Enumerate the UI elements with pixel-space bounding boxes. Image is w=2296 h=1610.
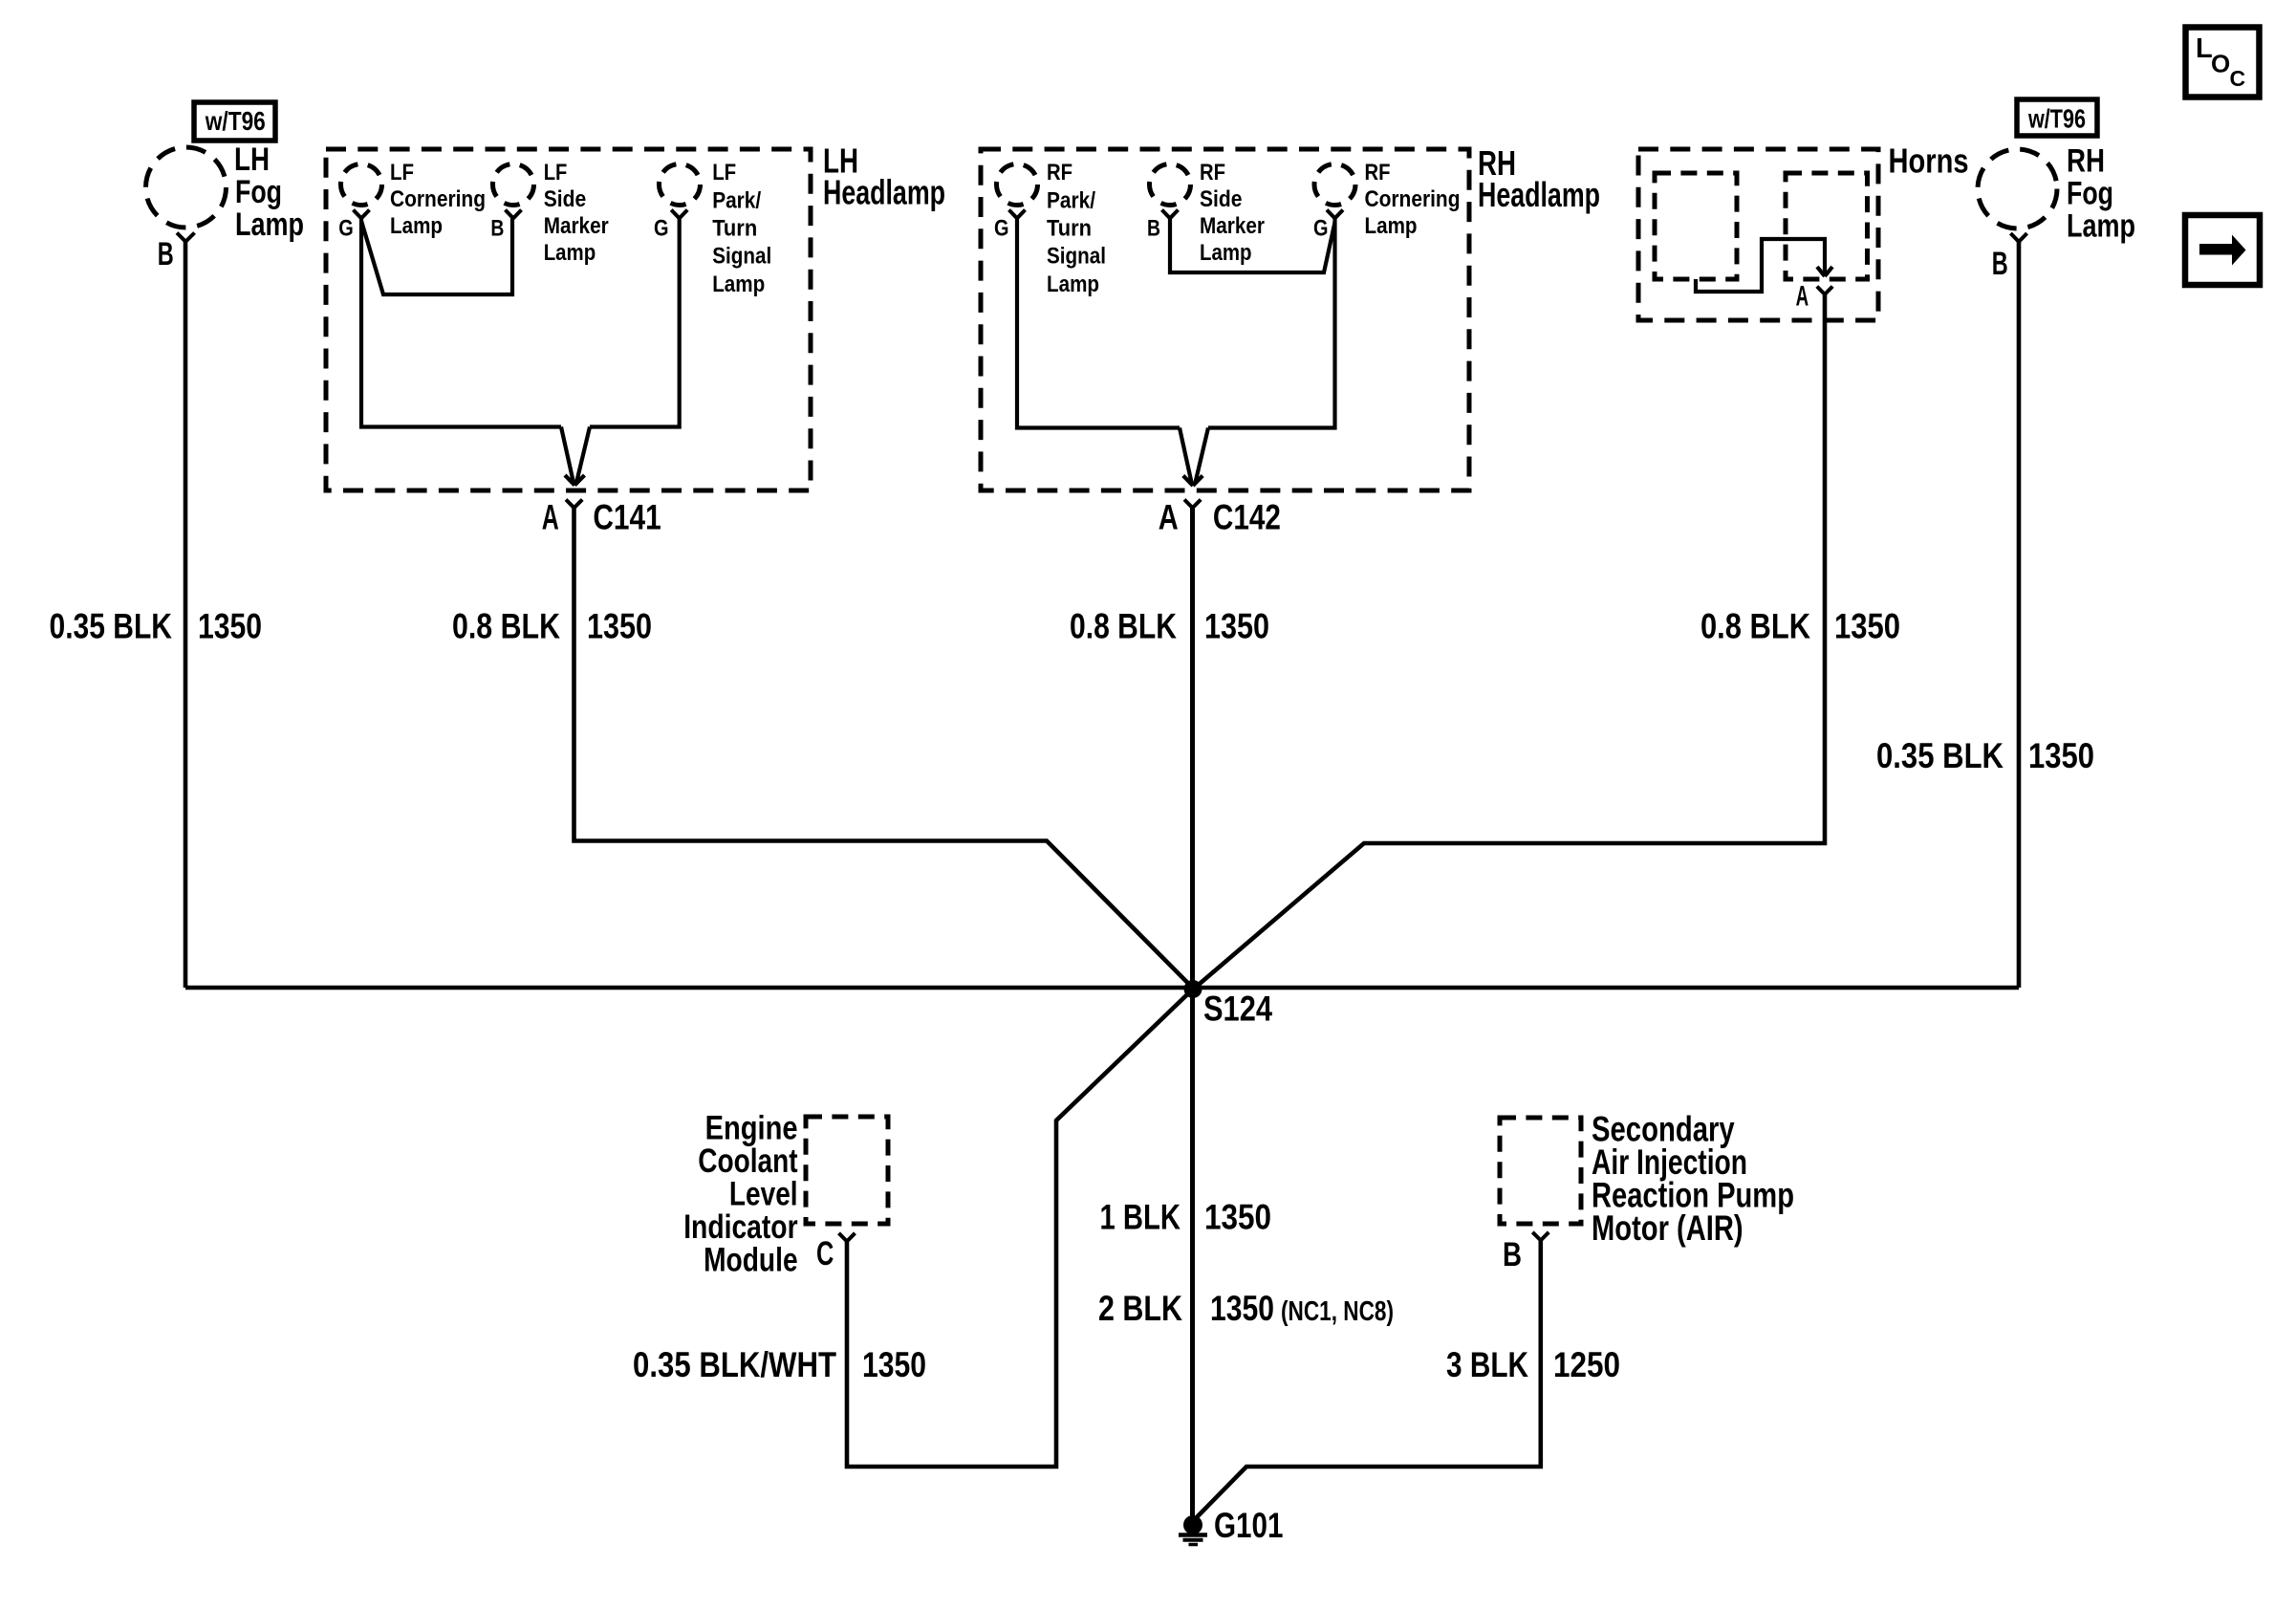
svg-text:C141: C141 (593, 498, 661, 537)
svg-text:Horns: Horns (1889, 141, 1969, 181)
svg-text:Marker: Marker (1200, 213, 1265, 239)
AIR pump pin B (1532, 1232, 1549, 1241)
svg-text:Fog: Fog (235, 174, 282, 210)
svg-text:RF: RF (1365, 160, 1391, 185)
RH Headlamp title (1478, 143, 1600, 214)
svg-text:A: A (542, 498, 559, 537)
svg-text:G: G (338, 216, 354, 242)
AIR pump label (1592, 1110, 1794, 1249)
svg-text:RH: RH (2067, 142, 2105, 179)
svg-text:1 BLK: 1 BLK (1100, 1197, 1181, 1236)
pin G of RF cornering lamp (1327, 210, 1343, 219)
LOC legend box (2186, 28, 2260, 98)
RH fog lamp (dashed circle) (1978, 149, 2057, 228)
w/T96 box (right) (2017, 99, 2097, 136)
LF side marker lamp (dashed circle) (493, 164, 534, 206)
svg-text:Turn: Turn (712, 216, 757, 242)
svg-text:LF: LF (390, 160, 414, 185)
svg-text:O: O (2211, 50, 2230, 78)
svg-text:Headlamp: Headlamp (823, 172, 945, 211)
w/T96 box (left) (194, 102, 275, 141)
svg-text:1350: 1350 (862, 1345, 926, 1384)
pin B of LF side marker lamp (506, 210, 522, 219)
svg-text:Indicator: Indicator (683, 1208, 798, 1246)
svg-text:Cornering: Cornering (1365, 186, 1461, 212)
svg-text:B: B (1147, 216, 1160, 242)
svg-text:Headlamp: Headlamp (1478, 175, 1600, 214)
svg-text:0.35 BLK/WHT: 0.35 BLK/WHT (633, 1345, 836, 1384)
svg-text:1350: 1350 (1210, 1289, 1274, 1328)
wire: RF side marker to cornering tie (1170, 219, 1335, 273)
svg-text:G: G (1313, 216, 1329, 242)
LH fog lamp label (234, 141, 304, 243)
LF cornering lamp (dashed circle) (341, 164, 382, 206)
svg-text:1350: 1350 (587, 607, 652, 646)
splice S124 (1184, 980, 1202, 998)
svg-text:B: B (490, 216, 504, 242)
wire: AIR pump to G101, 3 BLK 1250 (1195, 1240, 1541, 1519)
svg-text:Marker: Marker (544, 213, 609, 239)
wire: RF cornering lamp down (1208, 219, 1335, 428)
svg-text:w/T96: w/T96 (2027, 103, 2086, 133)
secondary air injection reaction pump motor (dashed box) (1500, 1118, 1581, 1224)
RH headlamp assembly (dashed box) (981, 149, 1469, 490)
svg-text:C: C (816, 1235, 834, 1273)
svg-text:G: G (654, 216, 669, 242)
svg-text:G: G (994, 216, 1009, 242)
engine coolant level indicator module (dashed box) (806, 1117, 888, 1224)
svg-text:Turn: Turn (1047, 216, 1092, 242)
svg-text:Lamp: Lamp (1047, 272, 1099, 297)
wire: module to S124, 0.35 BLK/WHT 1350 (847, 990, 1193, 1468)
LH headlamp assembly (dashed box) (326, 149, 811, 490)
wire: C142 / main ground vertical to G101 (1190, 508, 1195, 1517)
wire: C141 to S124, 0.8 BLK 1350 (574, 508, 1194, 989)
LH fog lamp (dashed circle) (146, 147, 227, 228)
svg-text:Park/: Park/ (712, 187, 761, 213)
svg-text:RF: RF (1047, 160, 1072, 185)
pin G of LF park/turn lamp (671, 210, 687, 219)
svg-text:S124: S124 (1203, 990, 1272, 1029)
svg-text:B: B (1503, 1236, 1522, 1273)
RF side marker lamp (dashed circle) (1150, 164, 1191, 206)
svg-text:1350: 1350 (2028, 736, 2094, 775)
svg-text:Lamp: Lamp (1365, 213, 1418, 239)
svg-text:Lamp: Lamp (712, 272, 765, 297)
svg-text:LH: LH (234, 141, 270, 178)
svg-text:Side: Side (544, 186, 587, 212)
svg-text:RF: RF (1200, 160, 1225, 185)
ground G101 (1179, 1515, 1207, 1545)
svg-text:1350: 1350 (1834, 607, 1900, 646)
svg-text:3 BLK: 3 BLK (1446, 1345, 1528, 1384)
module label (683, 1110, 798, 1279)
svg-text:1350: 1350 (1204, 607, 1269, 646)
RF cornering lamp (dashed circle) (1314, 164, 1355, 206)
svg-text:1250: 1250 (1553, 1345, 1620, 1384)
svg-text:LF: LF (544, 160, 568, 185)
svg-text:0.8 BLK: 0.8 BLK (1070, 607, 1177, 646)
svg-text:A: A (1796, 280, 1809, 312)
svg-text:0.35 BLK: 0.35 BLK (50, 607, 173, 646)
svg-text:Lamp: Lamp (235, 207, 304, 243)
module pin C (839, 1233, 856, 1242)
funnel arrow into C142 (1180, 428, 1208, 487)
svg-text:C: C (2230, 66, 2246, 91)
svg-text:w/T96: w/T96 (205, 106, 266, 136)
funnel arrow into C141 (561, 427, 590, 486)
wire: horn 1 to horn 2 jumper with arrow (1696, 239, 1832, 292)
svg-text:Lamp: Lamp (2067, 207, 2135, 244)
horn 2 (inner dashed box) (1786, 173, 1868, 279)
arrow legend box (2185, 215, 2260, 285)
svg-text:Side: Side (1200, 186, 1243, 212)
pin G of RF park/turn lamp (1009, 210, 1026, 219)
svg-text:1350: 1350 (1204, 1197, 1271, 1236)
RH fog lamp label (2067, 142, 2135, 244)
horn 1 (inner dashed box) (1655, 173, 1737, 279)
horns assembly (outer dashed box) (1638, 149, 1878, 320)
pin B of LH fog lamp (177, 233, 195, 242)
svg-text:Park/: Park/ (1047, 187, 1095, 213)
svg-text:Lamp: Lamp (390, 213, 443, 239)
svg-text:Lamp: Lamp (1200, 240, 1252, 266)
wire: LF park/turn lamp down (590, 219, 680, 427)
svg-text:0.8 BLK: 0.8 BLK (1700, 607, 1810, 646)
svg-text:B: B (1992, 246, 2008, 282)
svg-text:Coolant: Coolant (698, 1142, 798, 1180)
svg-text:A: A (1159, 498, 1179, 537)
svg-text:Engine: Engine (705, 1110, 798, 1147)
horns pin A (1817, 287, 1832, 294)
LH Headlamp title (823, 141, 945, 211)
svg-text:Level: Level (729, 1176, 798, 1213)
connector C142 pin A (1184, 500, 1201, 509)
wire: RF park/turn lamp down (1017, 219, 1180, 428)
svg-text:Signal: Signal (1047, 244, 1106, 270)
svg-text:0.8 BLK: 0.8 BLK (452, 607, 560, 646)
svg-text:Module: Module (704, 1242, 798, 1279)
svg-text:Fog: Fog (2067, 175, 2113, 211)
RF park/turn signal lamp (dashed circle) (997, 164, 1038, 206)
svg-text:Motor (AIR): Motor (AIR) (1592, 1208, 1744, 1248)
wire: shared fog lamp horizontal into S124 (185, 986, 2019, 990)
wire: LH fog lamp ground, vertical 0.35 BLK 1350 (184, 242, 188, 989)
svg-text:Lamp: Lamp (544, 240, 596, 266)
pin B of RF side marker lamp (1162, 210, 1179, 219)
wire: RH fog lamp ground, 0.35 BLK 1350 (2017, 242, 2022, 989)
pin B of RH fog lamp (2010, 233, 2026, 242)
pin G of LF cornering lamp (354, 210, 370, 219)
wire: LF cornering to side marker tie (361, 219, 512, 295)
LF park/turn signal lamp (dashed circle) (660, 164, 701, 206)
svg-text:C142: C142 (1213, 498, 1281, 537)
svg-text:G101: G101 (1214, 1506, 1284, 1545)
svg-text:2 BLK: 2 BLK (1098, 1289, 1182, 1328)
wire: LF cornering lamp down (361, 219, 561, 427)
svg-text:1350: 1350 (198, 607, 262, 646)
svg-text:Signal: Signal (712, 244, 771, 270)
wire: horns to S124, 0.8 BLK 1350 (1194, 294, 1826, 990)
connector C141 pin A (566, 500, 582, 509)
svg-text:0.35 BLK: 0.35 BLK (1876, 736, 2004, 775)
svg-text:Cornering: Cornering (390, 186, 486, 212)
svg-text:(NC1, NC8): (NC1, NC8) (1281, 1296, 1394, 1327)
svg-text:LF: LF (712, 160, 736, 185)
svg-text:B: B (158, 236, 174, 272)
